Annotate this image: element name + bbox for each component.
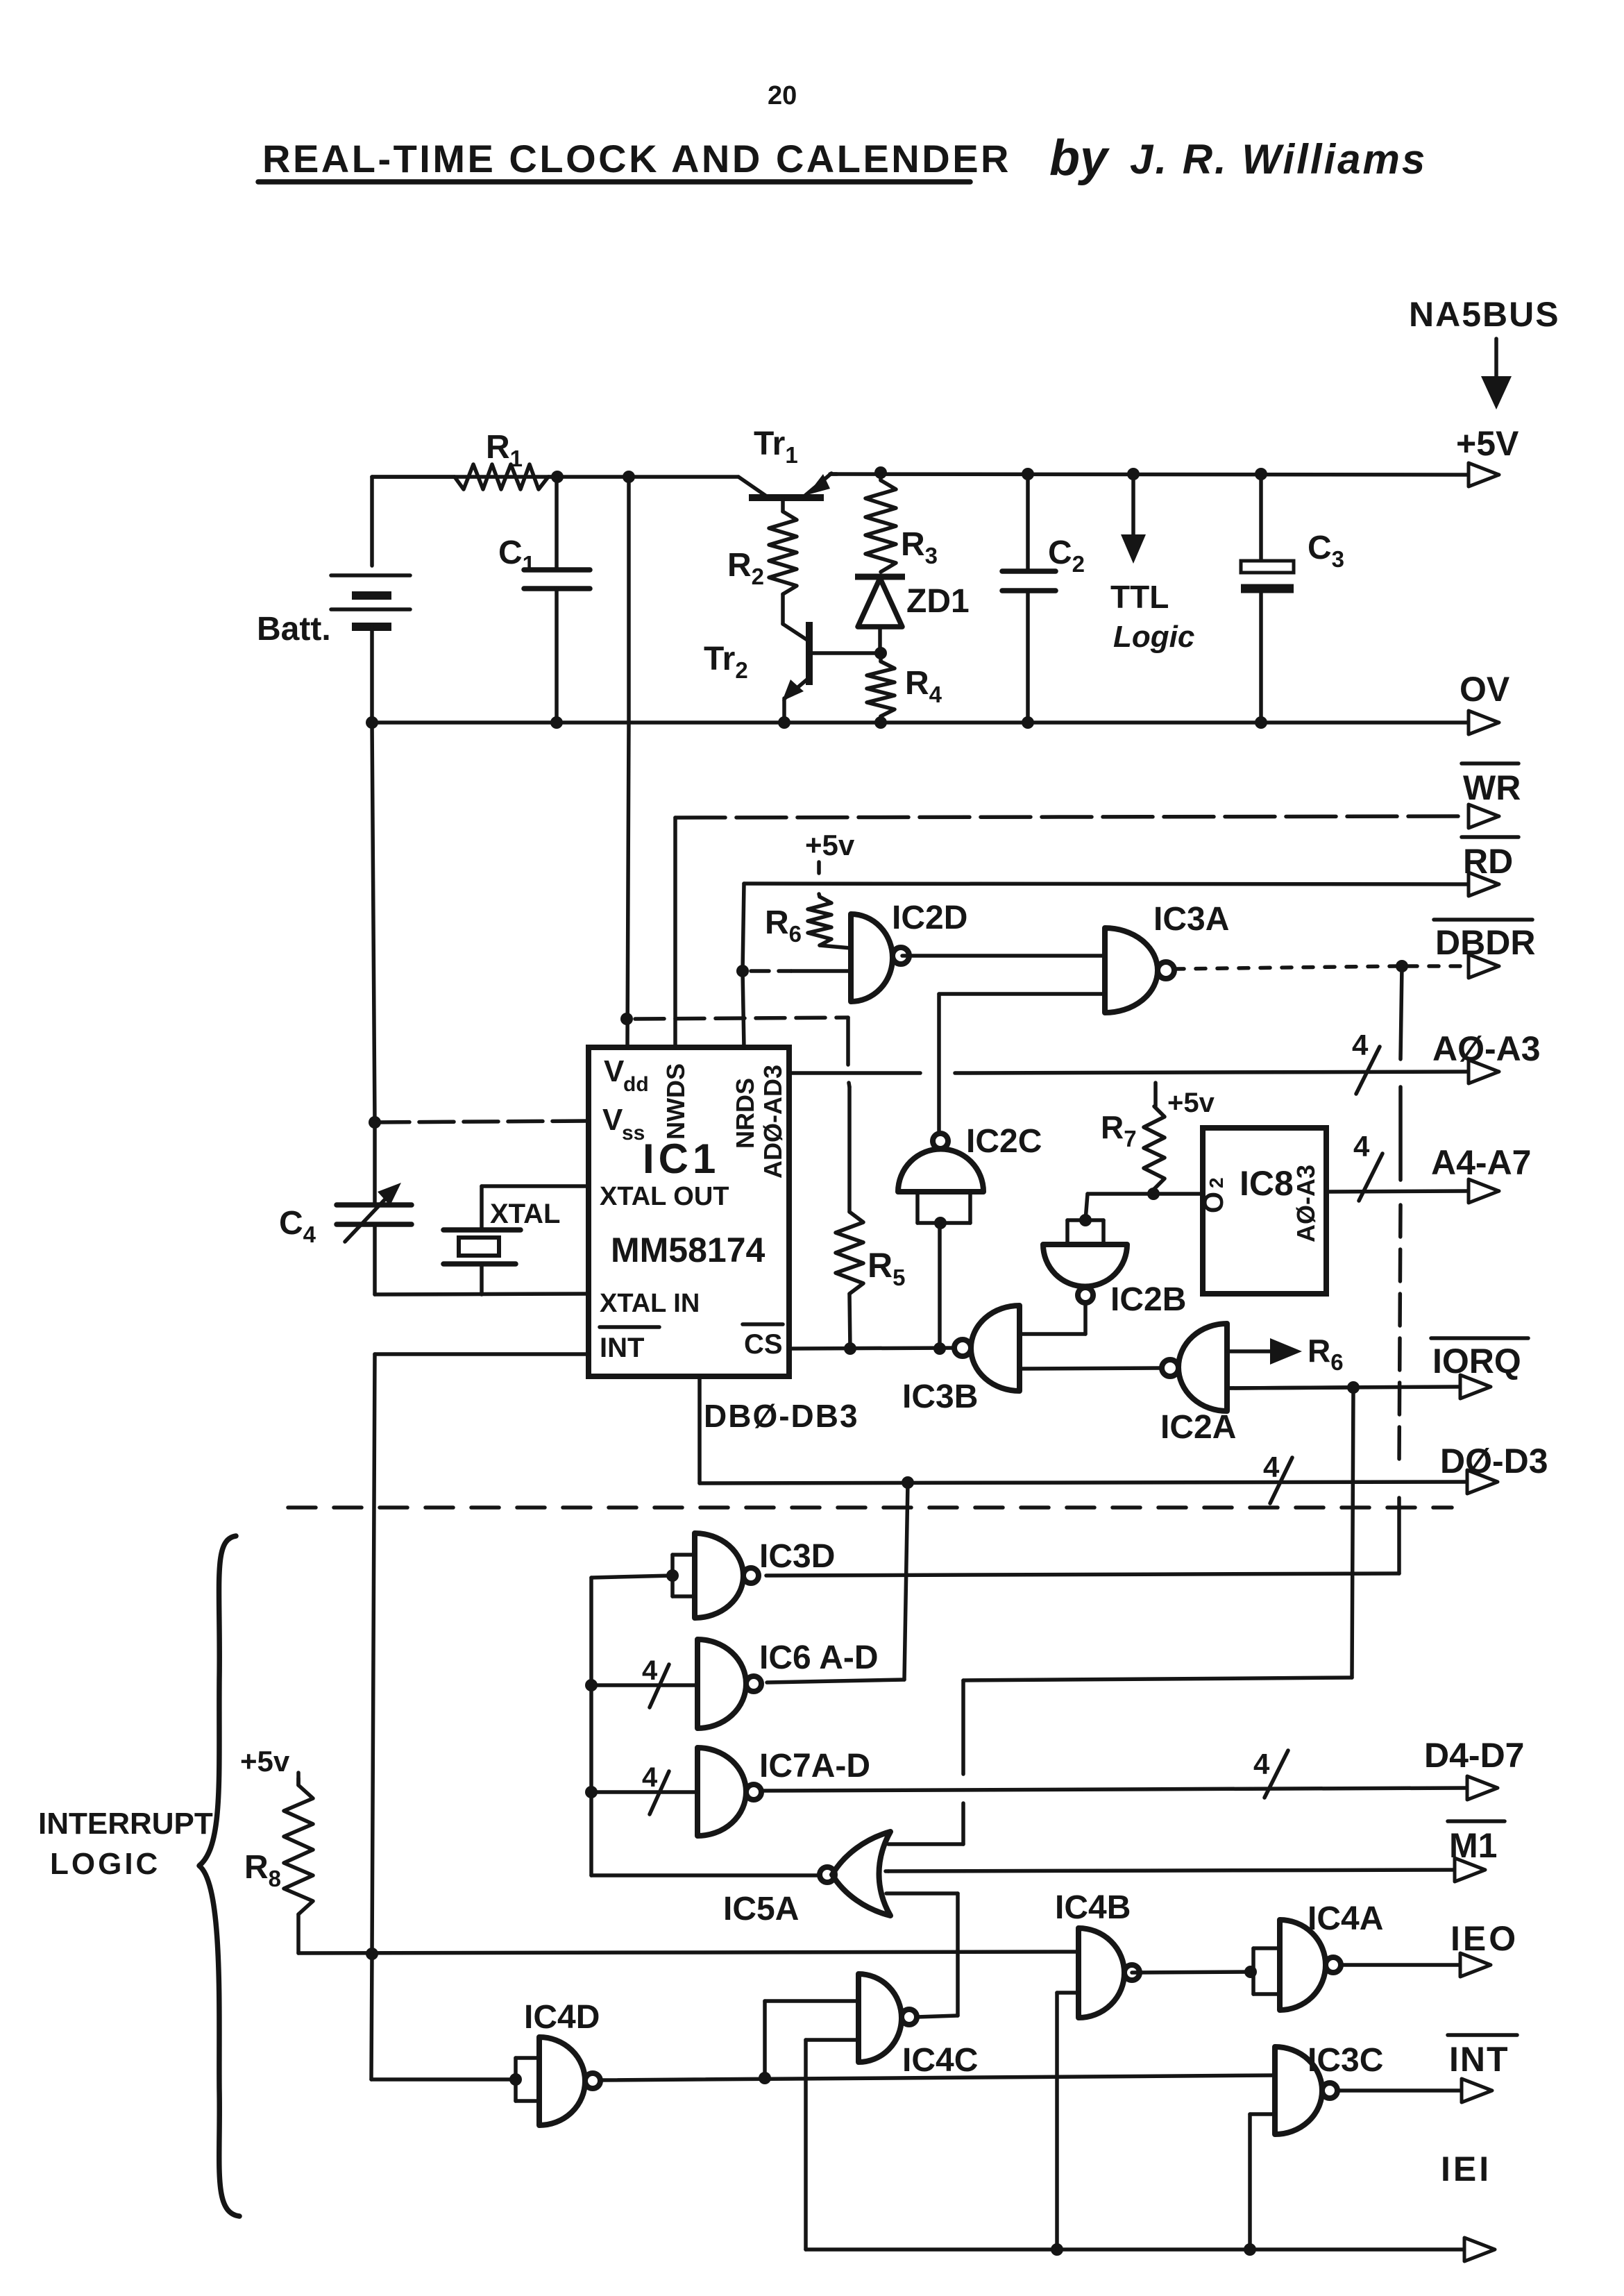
wire IEI to IC4B input [1055, 1993, 1059, 2249]
svg-text:AØ-A3: AØ-A3 [1432, 1029, 1541, 1068]
svg-text:IC7A-D: IC7A-D [759, 1748, 870, 1784]
wire Vdd [627, 477, 631, 723]
wire INT out [1337, 2088, 1460, 2093]
node IEI IC3C [1244, 2243, 1256, 2256]
wire +5v stub R7 [1153, 1083, 1158, 1106]
svg-text:INT: INT [600, 1333, 644, 1363]
svg-text:IC3B: IC3B [902, 1378, 978, 1415]
NAND gate IC2A (left-facing) [1178, 1324, 1227, 1411]
wire NWDS [673, 818, 677, 1047]
svg-text:J. R. Williams: J. R. Williams [1130, 136, 1427, 183]
node Tr2 0V [778, 716, 790, 729]
node INT R8 junction [366, 1948, 378, 1960]
svg-text:Batt.: Batt. [257, 611, 331, 648]
svg-text:IC4B: IC4B [1055, 1889, 1131, 1926]
svg-text:TTL: TTL [1110, 579, 1169, 615]
node R7 bottom [1147, 1188, 1160, 1200]
node R4 0V [874, 716, 887, 729]
node C3 rail [1255, 468, 1267, 480]
wire IC2A input to R6 arrow [1227, 1349, 1276, 1353]
resistor R3 [879, 473, 883, 480]
wire IC4B out [1132, 1972, 1251, 1973]
svg-text:4: 4 [1253, 1748, 1270, 1780]
NAND gate IC4B [1079, 1928, 1124, 2018]
wire IC4C top input [856, 1999, 861, 2003]
wire NRDS [743, 971, 744, 1047]
wire IC4D out to IC4C input [763, 2001, 767, 2078]
wire IC7 out D4-D7 rail [761, 1788, 1466, 1791]
wire NRDS to IC2D input [751, 969, 791, 973]
DBDR rail wire (dashed) [1174, 966, 1396, 969]
svg-text:+5v: +5v [805, 829, 855, 861]
wire R8 rail to IC4B [298, 1952, 1079, 1953]
svg-text:O: O [1199, 1192, 1229, 1213]
wire IORQ to IC5A path [1352, 1387, 1353, 1678]
node R3 rail [874, 466, 887, 479]
wire Vss dashed to IC1 [375, 1121, 589, 1122]
wire battery to Vss [372, 723, 375, 1122]
wire DBDR feedback vertical [1401, 966, 1402, 1059]
node Tr2 base ZD1 R4 [874, 647, 887, 659]
IC1 box MM58174 [589, 1047, 789, 1376]
wire IC5A out to bus [591, 1873, 820, 1877]
wire IC2C tie to CS [938, 1223, 942, 1349]
wire D0-D3 to IC6 out [904, 1483, 908, 1680]
svg-text:+5v: +5v [240, 1745, 290, 1778]
svg-text:IORQ: IORQ [1432, 1342, 1521, 1381]
NAND gate IC3C [1275, 2047, 1322, 2134]
TTL Logic arrow [1131, 474, 1135, 547]
svg-text:INTERRUPT: INTERRUPT [38, 1807, 213, 1841]
svg-text:V: V [602, 1103, 623, 1137]
wire INT to IC4D [371, 1954, 372, 2079]
svg-text:V: V [604, 1054, 625, 1088]
node IC6 input bus [585, 1679, 598, 1691]
svg-text:IC2A: IC2A [1160, 1409, 1236, 1446]
svg-text:IC8: IC8 [1240, 1164, 1294, 1203]
svg-text:XTAL OUT: XTAL OUT [600, 1182, 729, 1211]
node C1 0V [550, 716, 563, 729]
node CS IC2C junction [933, 1342, 946, 1355]
svg-text:dd: dd [623, 1073, 649, 1096]
svg-text:2: 2 [1206, 1177, 1227, 1188]
wire Vdd dashed branch [635, 1018, 848, 1019]
wire IC3B lower input from IC2A [1020, 1368, 1161, 1369]
svg-text:+5v: +5v [1167, 1088, 1215, 1118]
node C3 0V [1255, 716, 1267, 729]
node IORQ junction [1347, 1381, 1360, 1394]
capacitor C2 [1026, 474, 1030, 571]
wire C4 loop bottom [375, 1294, 589, 1294]
RD rail wire [744, 884, 1467, 884]
node IEI IC4B [1051, 2243, 1063, 2256]
svg-text:IC5A: IC5A [723, 1891, 799, 1927]
svg-text:IC3A: IC3A [1153, 901, 1229, 938]
svg-text:A4-A7: A4-A7 [1431, 1143, 1531, 1182]
svg-text:XTAL: XTAL [490, 1199, 560, 1229]
svg-text:IC4D: IC4D [524, 1999, 600, 2036]
NAND gate IC3B (left-facing) [971, 1306, 1020, 1391]
NAND gate IC3A [1105, 928, 1158, 1013]
NAND gate IC4D [539, 2037, 585, 2125]
wire IC2B out to IC3B [1083, 1303, 1088, 1334]
A4-A7 rail wire [1326, 1191, 1467, 1192]
svg-text:20: 20 [768, 81, 797, 110]
node R1-C1 [551, 471, 564, 483]
wire IC3D out to DBDR [766, 1573, 1399, 1576]
node IC4A tie [1244, 1966, 1257, 1978]
battery Batt. [370, 477, 374, 566]
svg-text:IC4A: IC4A [1308, 1900, 1383, 1937]
capacitor C4 (variable) [373, 1122, 377, 1205]
node Vdd dashed branch [620, 1013, 633, 1025]
wire IC5A M1 input [886, 1869, 888, 1873]
NAND gate IC7A-D [697, 1748, 746, 1836]
svg-text:DBDR: DBDR [1435, 923, 1535, 962]
svg-text:IEI: IEI [1441, 2150, 1491, 2188]
node Vss junction [369, 1116, 381, 1129]
svg-text:IC4C: IC4C [902, 2042, 978, 2079]
node C2 rail [1022, 468, 1034, 480]
wire +5v stub R8 [296, 1773, 301, 1785]
NAND gate IC4A [1280, 1920, 1326, 2010]
svg-text:4: 4 [1263, 1451, 1280, 1483]
svg-text:4: 4 [642, 1655, 658, 1686]
node IC4D out junction [759, 2072, 771, 2084]
zener diode ZD1 [855, 574, 905, 580]
svg-text:Logic: Logic [1113, 620, 1194, 654]
resistor R2 [781, 498, 785, 512]
svg-text:ZD1: ZD1 [906, 583, 970, 620]
wire IC3C bottom input hook [1250, 2112, 1275, 2116]
svg-text:IC6 A-D: IC6 A-D [759, 1639, 879, 1676]
capacitor C3 (electrolytic) [1259, 474, 1263, 561]
svg-text:REAL-TIME CLOCK AND CALENDER: REAL-TIME CLOCK AND CALENDER [262, 137, 1011, 180]
svg-text:INT: INT [1449, 2040, 1509, 2079]
transistor Tr2 [806, 622, 813, 685]
wire interrupt bus vertical [589, 1578, 593, 1875]
NOR gate IC5A (left-facing) [832, 1832, 890, 1916]
node DBDR junction [1396, 960, 1408, 972]
node D0-D3 junction [902, 1476, 914, 1489]
svg-text:XTAL IN: XTAL IN [600, 1289, 700, 1318]
node C2 0V [1022, 716, 1034, 729]
resistor R8 [296, 1778, 301, 1785]
NAND gate IC4C [858, 1974, 902, 2062]
node battery 0V [366, 716, 378, 729]
svg-text:IC3D: IC3D [759, 1538, 835, 1575]
svg-text:CS: CS [744, 1329, 783, 1360]
wire IC2A lower input IORQ [1227, 1387, 1353, 1388]
0V rail wire [372, 720, 1467, 725]
NAND gate IC2C (inverter, bubble up) [898, 1149, 983, 1192]
resistor R6 [808, 897, 831, 945]
wire IC2D out [902, 954, 1105, 958]
svg-text:4: 4 [1352, 1029, 1369, 1061]
NASBUS arrow [1494, 339, 1498, 380]
resistor R7 [1144, 1106, 1165, 1189]
node R5 CS [844, 1342, 856, 1355]
+5V rail wire [372, 475, 738, 479]
crystal XTAL [480, 1186, 484, 1230]
D0-D3 rail wire [700, 1482, 1466, 1483]
svg-text:IC2D: IC2D [892, 900, 967, 936]
wire XTAL OUT [482, 1184, 589, 1188]
svg-text:AØ-A3: AØ-A3 [1292, 1165, 1320, 1242]
svg-text:LOGIC: LOGIC [50, 1847, 160, 1881]
node IC4D tie [509, 2073, 522, 2086]
wire IC5A input from IC4C [886, 1891, 958, 1896]
svg-text:D4-D7: D4-D7 [1424, 1736, 1524, 1775]
+5V rail wire right [830, 474, 1467, 475]
wire IC4D out [600, 2075, 1275, 2080]
node IC7 input bus [585, 1786, 598, 1798]
NAND gate IC2D [851, 914, 893, 1002]
svg-text:NWDS: NWDS [661, 1063, 690, 1140]
svg-text:IC1: IC1 [643, 1136, 720, 1182]
M1 rail wire [888, 1870, 1453, 1871]
wire IC3D tie to bus [591, 1576, 673, 1578]
wire DB0-DB3 [697, 1376, 702, 1483]
interrupt logic brace [199, 1536, 239, 2216]
wire IEO out [1341, 1963, 1459, 1967]
A0-A3 rail wire [789, 1071, 920, 1075]
svg-text:DØ-D3: DØ-D3 [1440, 1442, 1548, 1480]
node IC3D tie [666, 1569, 679, 1582]
IC8 box [1203, 1128, 1326, 1294]
NAND gate IC3D [695, 1533, 743, 1618]
wire branch down to R5 [846, 1018, 850, 1065]
svg-text:MM58174: MM58174 [611, 1231, 766, 1269]
IEI rail wire [806, 2247, 1463, 2252]
svg-text:OV: OV [1460, 670, 1510, 709]
capacitor C1 [555, 477, 559, 570]
IORQ rail wire [1227, 1387, 1459, 1388]
node IC2B input tie [1079, 1214, 1092, 1226]
svg-text:ADØ-AD3: ADØ-AD3 [759, 1065, 787, 1179]
svg-text:+5V: +5V [1456, 424, 1519, 463]
svg-text:IC2B: IC2B [1110, 1281, 1186, 1318]
svg-text:4: 4 [642, 1762, 658, 1793]
wire IC6 input [591, 1683, 697, 1687]
resistor R5 [847, 1087, 852, 1212]
svg-text:by: by [1049, 130, 1110, 186]
wire IC2C out to IC3A input [939, 992, 1105, 996]
svg-text:NRDS: NRDS [731, 1078, 759, 1149]
divider dashed line [288, 1505, 1452, 1510]
wire IC4C bottom input hook [806, 2038, 858, 2042]
IC4A input tie [1251, 1948, 1255, 1994]
svg-text:NA5BUS: NA5BUS [1409, 295, 1560, 334]
resistor R1 [372, 475, 455, 479]
WR rail wire (dashed) [675, 816, 1467, 818]
NAND gate IC2B (inverter, bubble down) [1043, 1244, 1127, 1286]
node NRDS junction [736, 965, 749, 977]
node Vdd tap [623, 471, 635, 483]
wire +5v stub R6 [817, 862, 821, 873]
svg-text:WR: WR [1463, 768, 1521, 807]
transistor Tr1 [738, 477, 768, 497]
wire IC6 out [767, 1680, 904, 1682]
svg-text:IC3C: IC3C [1308, 2042, 1383, 2079]
svg-text:ss: ss [622, 1122, 645, 1145]
wire CS line [789, 1348, 954, 1349]
wire IC7 input [591, 1790, 697, 1794]
resistor R4 [879, 653, 883, 661]
wire IC4C out to IC5A [917, 2016, 958, 2017]
svg-text:DBØ-DB3: DBØ-DB3 [704, 1398, 859, 1434]
svg-text:4: 4 [1353, 1130, 1370, 1163]
node IC2C input tie [934, 1217, 947, 1229]
node TTL rail [1127, 468, 1140, 480]
wire IC1 INT out [375, 1352, 589, 1356]
NAND gate IC6A-D [697, 1639, 746, 1728]
svg-text:IC2C: IC2C [966, 1123, 1042, 1160]
wire R7 junction line [1088, 1192, 1203, 1196]
wire IC2B tie to R7 line [1085, 1194, 1088, 1220]
